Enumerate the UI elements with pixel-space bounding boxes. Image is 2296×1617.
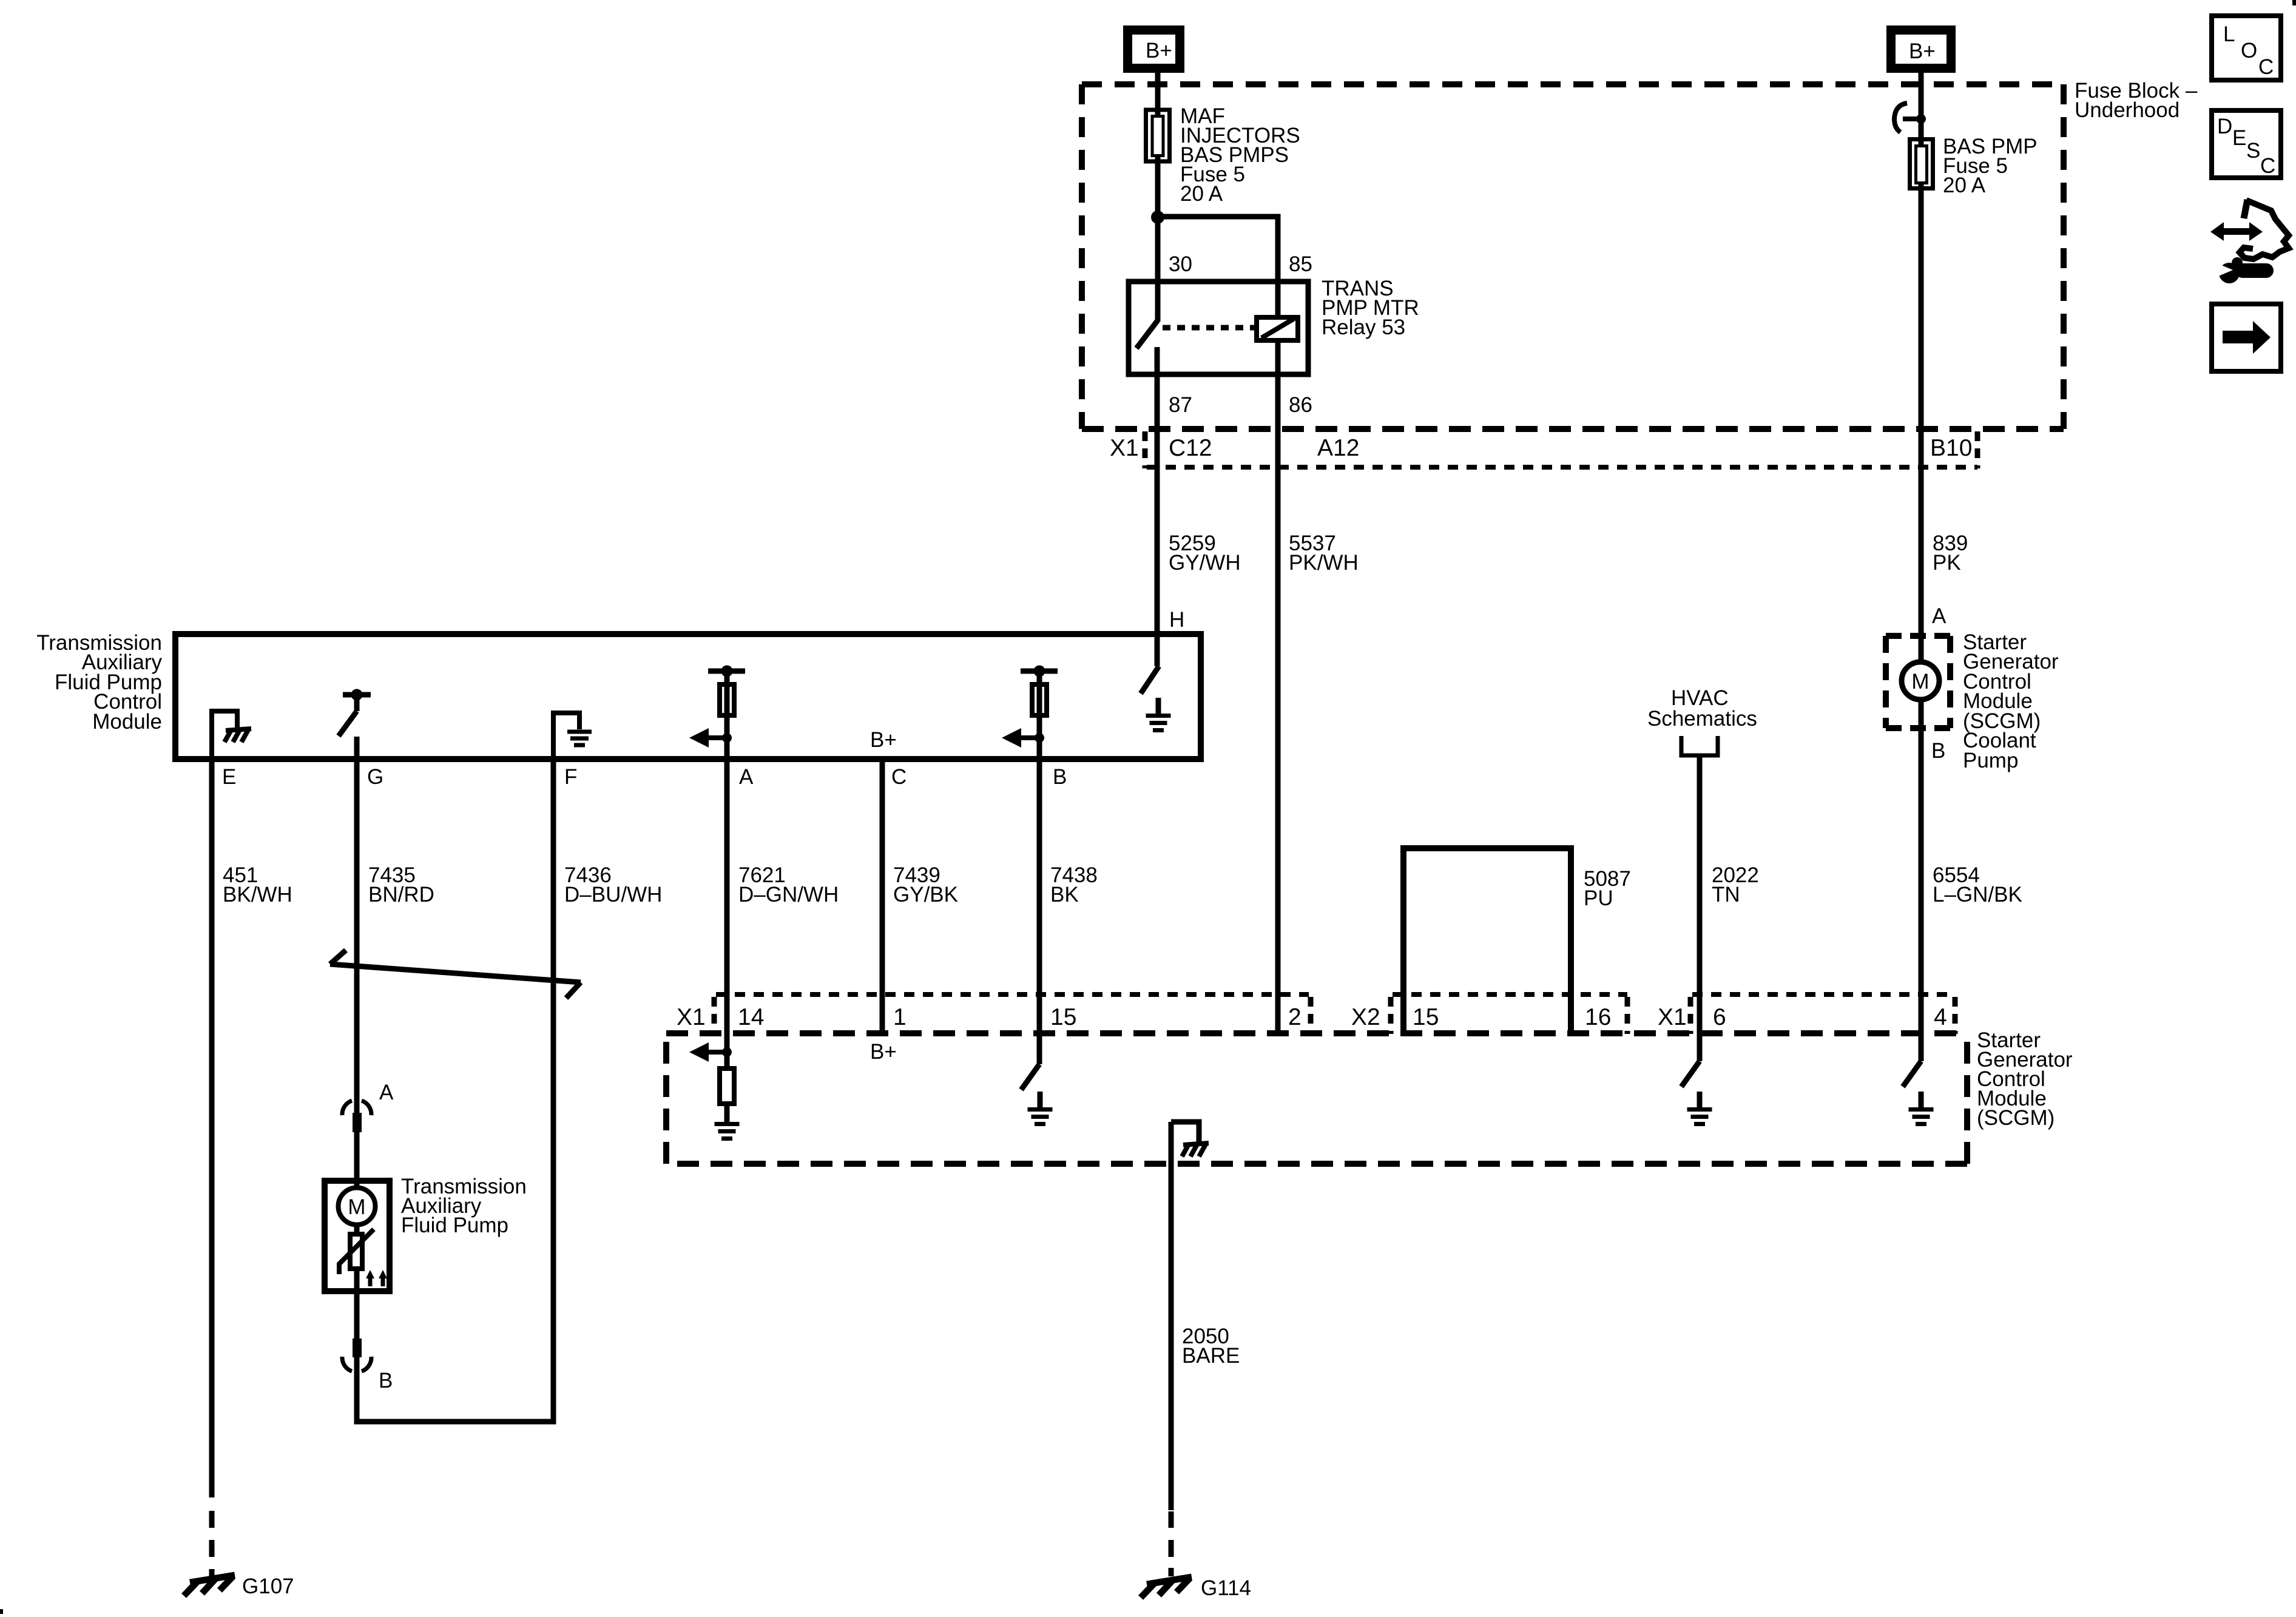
wire label 7439 GY/BK [893,863,958,906]
svg-text:20 A: 20 A [1943,174,1986,197]
svg-text:15: 15 [1413,1004,1439,1030]
svg-text:15: 15 [1050,1004,1076,1030]
svg-text:14: 14 [738,1004,764,1030]
svg-text:PU: PU [1584,886,1613,910]
SCGM Coolant Pump dashed box [1886,636,1950,728]
wire 5087 PU loop box [1403,848,1571,1033]
svg-text:GY/WH: GY/WH [1169,551,1241,575]
wire label 5259 GY/WH [1169,532,1241,575]
svg-text:2: 2 [1288,1004,1302,1030]
wire relay pin 87 down through C12 to module pin H [1155,347,1160,666]
svg-text:B10: B10 [1930,435,1972,461]
B+ power feed box (left) [1123,25,1184,73]
svg-text:16: 16 [1585,1004,1611,1030]
svg-text:A: A [379,1081,394,1104]
wire pin E down to G107 [209,759,215,1576]
SCGM internal: pin 14 resistor to ground [715,1068,740,1139]
svg-text:L–GN/BK: L–GN/BK [1933,883,2022,906]
svg-text:S: S [2246,139,2260,163]
svg-text:A: A [1932,604,1947,628]
svg-text:Fluid Pump: Fluid Pump [401,1214,508,1237]
svg-text:B: B [1053,765,1067,789]
svg-text:PK: PK [1933,551,1961,575]
pump flow arrows [366,1270,387,1286]
coolant pump motor M [1902,662,1939,700]
svg-text:(SCGM): (SCGM) [1977,1106,2055,1130]
Transmission Auxiliary Fluid Pump box [325,1181,390,1291]
svg-text:BN/RD: BN/RD [368,883,434,906]
inline connector B of pump [342,1338,371,1371]
fuse block connector row heavy dashed line [1082,426,2064,432]
junction node below fuse F1 [1151,211,1164,224]
wire label 7436 D-BU/WH [564,863,662,906]
wire pin A down to SCGM pin 14 [724,759,730,1068]
HVAC Schematics off-page reference [1647,686,1757,755]
wire pin G down to pump connector A [354,759,360,1186]
inline connector A of pump [342,1101,371,1132]
svg-text:4: 4 [1934,1004,1947,1030]
DESC navigation box [2212,110,2281,178]
Fuse Block - Underhood label [2075,79,2198,122]
svg-text:Underhood: Underhood [2075,98,2180,122]
wire from junction to relay coil pin 85 [1158,217,1278,319]
module internal: pin A pull-up resistor [708,666,745,760]
svg-text:Relay 53: Relay 53 [1322,316,1405,339]
svg-text:G114: G114 [1201,1576,1251,1600]
svg-text:86: 86 [1289,393,1312,417]
svg-text:B: B [1931,739,1945,763]
svg-text:Module: Module [92,710,162,734]
connector separator before X2 pin 15 [1388,997,1394,1034]
svg-text:Pump: Pump [1963,749,2018,772]
svg-text:C: C [2258,55,2274,79]
svg-text:D: D [2217,115,2232,138]
svg-text:O: O [2241,39,2257,62]
wire from right B+ down through fuse to coolant pump motor [1919,73,1924,662]
page artifact bottom left [0,1609,3,1614]
B+ power feed box (right) [1886,25,1956,73]
module name label [36,631,162,734]
connector separator after X2 pin 16 [1625,997,1630,1034]
wire label 2022 TN [1712,863,1759,906]
SCGM connector row fine dashed line (X2 group) [1393,992,1627,997]
svg-text:20 A: 20 A [1180,182,1223,206]
wire pump M to connector B [354,1269,360,1422]
SCGM internal: pin 6 switch to ground [1681,1061,1712,1124]
SCGM connector row fine dashed line (right X1 group) [1692,992,1953,997]
relay actuation dashed link [1163,325,1255,331]
relay name label [1322,277,1419,339]
Transmission Auxiliary Fluid Pump Control Module box [175,634,1201,759]
SCGM internal: pin 4 switch to ground [1903,1061,1934,1124]
svg-text:M: M [1911,670,1929,694]
svg-text:BARE: BARE [1182,1344,1240,1368]
wire label 2050 BARE [1182,1325,1240,1368]
wire pin F return path [357,759,553,1422]
svg-text:X1: X1 [1658,1004,1687,1030]
wire label 7438 BK [1050,863,1098,906]
svg-text:1: 1 [893,1004,907,1030]
svg-text:TN: TN [1712,883,1740,906]
page artifact top right [2292,0,2296,5]
svg-text:Schematics: Schematics [1647,707,1757,731]
SCGM internal: chassis ground bracket to G114 wire [1171,1122,1209,1156]
circuit breaker hook symbol [1894,103,1926,132]
svg-text:G: G [367,765,383,789]
module internal: pin B node and B+ arrow [1002,728,1044,748]
module internal: pin F earth ground [553,713,592,759]
connector end view hand icon [2210,200,2289,259]
LOC navigation box [2212,16,2281,80]
pump thermistor [339,1224,374,1274]
svg-text:85: 85 [1289,252,1312,276]
svg-text:PK/WH: PK/WH [1289,551,1359,575]
relay coil [1257,317,1298,340]
svg-text:6: 6 [1713,1004,1726,1030]
TRANS PMP MTR Relay 53 box [1129,282,1308,374]
wire label 5537 PK/WH [1289,532,1359,575]
wire coolant pump B down to SCGM pin 4 [1919,700,1924,1061]
svg-text:E: E [2232,126,2246,150]
fuse F1 MAF INJECTORS BAS PMPS Fuse 5 20 A [1146,110,1170,161]
fuse F2 BAS PMP Fuse 5 20 A [1910,140,1933,189]
connector separator before right X1 pin 6 [1688,997,1693,1034]
svg-text:X1: X1 [1110,435,1139,461]
wire label 5087 PU [1584,867,1631,910]
wire label 7435 BN/RD [368,863,434,906]
connector separator after pin 2 [1308,997,1314,1034]
pump name label [401,1175,527,1237]
svg-text:X1: X1 [677,1004,706,1030]
wire relay coil pin 86 down to SCGM pin 2 (5537) [1275,340,1281,1035]
fuse F1 value label [1180,104,1300,206]
SCGM internal: pin 15 switch to ground [1021,1064,1053,1124]
ground G107 [184,1575,294,1598]
relay switch blade (30 to 87) [1136,320,1158,348]
connector separator after lower X1 [712,997,717,1034]
connector separator after X1 [1143,431,1148,468]
wire pin B down to SCGM pin 15 [1037,759,1042,1064]
fuse block connector row fine dashed line [1147,465,1977,470]
pump motor M [339,1188,376,1225]
SCGM connector row fine dashed line (X1 group) [716,992,1309,997]
wire label 839 PK [1933,532,1968,575]
svg-text:D–GN/WH: D–GN/WH [738,883,839,906]
wire label 451 BK/WH [223,863,292,906]
svg-text:C: C [891,765,907,789]
module internal: pin G switch [339,689,371,760]
connector separator after pin 4 [1953,997,1958,1034]
svg-text:A12: A12 [1317,435,1359,461]
svg-text:A: A [739,765,754,789]
svg-text:B+: B+ [1909,39,1936,63]
svg-text:E: E [222,765,236,789]
svg-text:B+: B+ [1146,39,1172,62]
module internal: pin A node and B+ arrow [689,728,732,748]
wire pin C down to SCGM pin 1 [880,759,885,1035]
svg-text:G107: G107 [242,1575,294,1598]
svg-text:H: H [1169,608,1184,632]
wire HVAC down to SCGM pin 6 [1697,757,1703,1061]
module internal: pin H switch to ground [1141,666,1171,731]
svg-text:C12: C12 [1169,435,1212,461]
SCGM internal: pin 14 node and B+ arrow [689,1042,732,1062]
SCGM dashed box [666,1033,1967,1164]
svg-text:B+: B+ [870,728,897,752]
svg-text:X2: X2 [1351,1004,1380,1030]
svg-text:BK/WH: BK/WH [223,883,292,906]
wire label 6554 L-GN/BK [1933,863,2022,906]
svg-text:30: 30 [1169,252,1192,276]
wire 2050 BARE from SCGM to G114 [1169,1122,1174,1576]
wrench icon [2217,257,2266,283]
coolant pump name label [1963,630,2059,772]
Fuse Block - Underhood dashed box [1082,84,2064,429]
ground G114 [1141,1576,1251,1600]
wire from left B+ through fuse to relay pin 30 [1155,73,1161,322]
crossing slash symbol [330,950,581,998]
svg-text:M: M [348,1195,365,1219]
svg-text:B+: B+ [870,1040,897,1064]
svg-text:87: 87 [1169,393,1192,417]
svg-text:D–BU/WH: D–BU/WH [564,883,662,906]
fuse F2 value label [1943,135,2038,197]
svg-text:L: L [2223,22,2235,46]
svg-text:C: C [2260,154,2275,178]
svg-text:B: B [379,1369,393,1393]
wire label 7621 D-GN/WH [738,863,839,906]
svg-text:GY/BK: GY/BK [893,883,958,906]
connector separator right of B10 [1975,431,1980,468]
forward arrow navigation box [2212,304,2281,371]
SCGM name label [1977,1028,2073,1130]
module internal: pin E chassis ground [212,711,251,759]
module internal: pin B pull-up resistor [1021,666,1058,760]
svg-text:F: F [564,765,577,789]
svg-text:BK: BK [1050,883,1079,906]
